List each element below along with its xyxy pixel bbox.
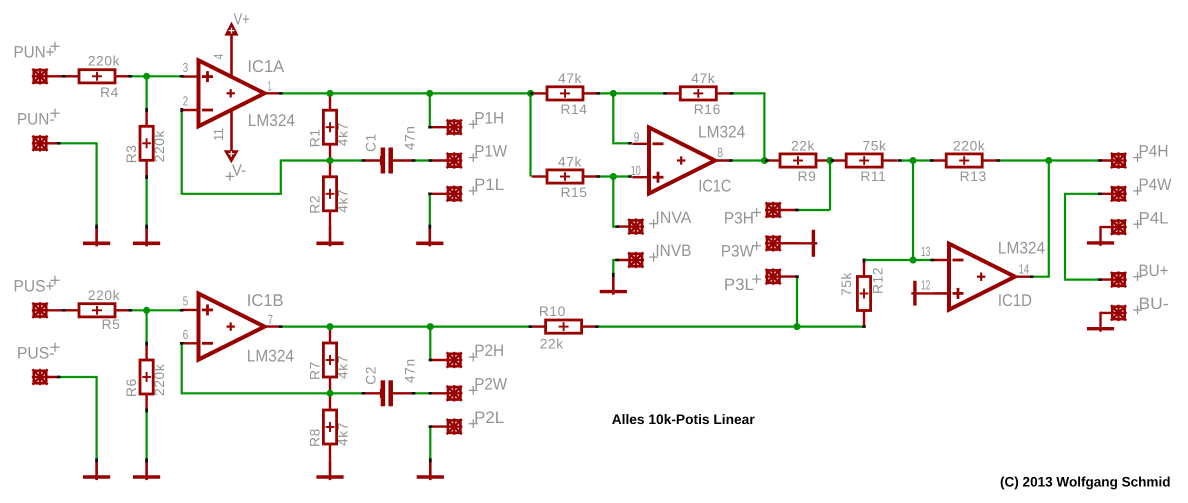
svg-text:C2: C2 — [363, 366, 378, 385]
svg-text:IC1C: IC1C — [698, 177, 731, 196]
svg-text:LM324: LM324 — [247, 346, 294, 365]
svg-text:14: 14 — [1019, 261, 1030, 276]
svg-text:2: 2 — [183, 94, 189, 109]
svg-text:LM324: LM324 — [998, 238, 1045, 257]
svg-text:12: 12 — [921, 277, 931, 292]
svg-text:22k: 22k — [791, 138, 815, 153]
svg-text:P3L: P3L — [724, 275, 754, 294]
svg-text:PUS-: PUS- — [17, 343, 55, 362]
svg-text:47n: 47n — [402, 125, 417, 150]
svg-text:R9: R9 — [798, 169, 817, 184]
svg-text:INVB: INVB — [655, 241, 691, 260]
svg-text:IC1B: IC1B — [247, 291, 284, 310]
svg-text:R5: R5 — [102, 317, 121, 332]
svg-text:R1: R1 — [308, 128, 323, 147]
svg-text:PUN-: PUN- — [17, 109, 55, 128]
svg-text:220k: 220k — [152, 364, 167, 396]
svg-text:V+: V+ — [234, 11, 250, 29]
svg-text:4k7: 4k7 — [336, 422, 351, 446]
svg-text:220k: 220k — [88, 54, 120, 69]
svg-text:V-: V- — [232, 161, 246, 179]
svg-text:R15: R15 — [560, 185, 587, 200]
svg-text:4k7: 4k7 — [336, 189, 351, 213]
svg-text:75k: 75k — [862, 138, 886, 153]
svg-text:R6: R6 — [124, 378, 139, 397]
svg-text:P4H: P4H — [1139, 142, 1169, 161]
svg-text:LM324: LM324 — [248, 111, 295, 130]
svg-text:R4: R4 — [100, 85, 119, 100]
svg-text:75k: 75k — [839, 272, 854, 296]
svg-text:Alles 10k-Potis Linear: Alles 10k-Potis Linear — [612, 412, 756, 427]
svg-text:P3H: P3H — [724, 208, 754, 227]
svg-text:P1W: P1W — [474, 142, 507, 161]
svg-text:R14: R14 — [560, 102, 587, 117]
svg-text:3: 3 — [183, 60, 189, 75]
svg-text:P1H: P1H — [474, 108, 504, 127]
svg-text:47k: 47k — [691, 71, 715, 86]
svg-text:R2: R2 — [308, 195, 323, 214]
svg-text:R12: R12 — [870, 267, 885, 294]
svg-text:R3: R3 — [124, 144, 139, 163]
svg-text:P2W: P2W — [474, 375, 507, 394]
svg-text:BU-: BU- — [1139, 294, 1169, 313]
svg-text:P2H: P2H — [474, 341, 504, 360]
svg-text:C1: C1 — [363, 133, 378, 152]
svg-text:4k7: 4k7 — [336, 355, 351, 379]
svg-text:R11: R11 — [860, 169, 886, 184]
svg-text:9: 9 — [634, 130, 640, 145]
svg-text:PUN+: PUN+ — [14, 43, 55, 62]
svg-text:R8: R8 — [308, 428, 323, 447]
svg-text:BU+: BU+ — [1139, 261, 1169, 280]
svg-text:P3W: P3W — [721, 242, 754, 261]
svg-text:PUS+: PUS+ — [14, 277, 55, 296]
svg-text:4k7: 4k7 — [336, 122, 351, 146]
svg-text:(C) 2013 Wolfgang Schmid: (C) 2013 Wolfgang Schmid — [1000, 475, 1171, 490]
svg-text:R7: R7 — [308, 361, 323, 380]
svg-text:R16: R16 — [694, 102, 721, 117]
svg-text:IC1D: IC1D — [998, 291, 1032, 310]
svg-text:8: 8 — [717, 145, 723, 160]
svg-text:R10: R10 — [539, 304, 566, 319]
svg-text:P2L: P2L — [474, 408, 504, 427]
svg-text:IC1A: IC1A — [247, 57, 284, 76]
svg-text:22k: 22k — [540, 336, 564, 351]
svg-text:220k: 220k — [152, 130, 167, 162]
svg-text:11: 11 — [211, 128, 226, 141]
svg-text:LM324: LM324 — [698, 122, 745, 141]
svg-text:5: 5 — [183, 294, 189, 309]
svg-text:47n: 47n — [402, 358, 417, 383]
svg-text:10: 10 — [631, 163, 641, 178]
svg-text:4: 4 — [211, 54, 226, 60]
svg-text:P4W: P4W — [1139, 175, 1172, 194]
svg-text:220k: 220k — [88, 288, 120, 303]
svg-text:13: 13 — [921, 244, 931, 259]
svg-text:R13: R13 — [960, 169, 987, 184]
svg-text:P4L: P4L — [1139, 208, 1169, 227]
svg-text:47k: 47k — [558, 71, 582, 86]
svg-text:INVA: INVA — [655, 208, 692, 227]
svg-text:47k: 47k — [558, 154, 582, 169]
svg-text:7: 7 — [268, 312, 273, 327]
svg-text:220k: 220k — [953, 138, 985, 153]
svg-text:1: 1 — [268, 79, 272, 94]
svg-text:6: 6 — [183, 327, 189, 342]
svg-text:P1L: P1L — [474, 175, 504, 194]
